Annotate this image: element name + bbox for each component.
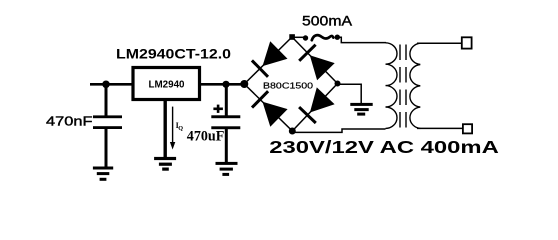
diode D3 top-right (292, 37, 338, 84)
diode D4 bottom-right (292, 84, 337, 132)
wire bridge right corner to ground (338, 84, 362, 103)
node bridge bottom corner (289, 128, 296, 135)
node input junction (102, 81, 110, 89)
wire junction to C1 (105, 84, 108, 116)
wire regulator ground pin (163, 100, 166, 157)
arrow IQ current (172, 107, 174, 144)
ground under C1 (93, 167, 113, 181)
svg-text:Q: Q (178, 125, 183, 132)
wire junction to C2 (225, 84, 228, 116)
wire regulator output (199, 83, 244, 86)
wire C2 to ground (225, 129, 228, 163)
capacitor C2 470uF (211, 115, 240, 118)
node bridge top corner (289, 34, 295, 40)
wire C1 to ground (105, 129, 108, 167)
node output junction (222, 81, 229, 88)
wire fuse to transformer primary top (337, 37, 386, 42)
ground under C2 (216, 162, 238, 176)
connector top terminal (462, 37, 472, 48)
fuse F1 squiggle (312, 35, 334, 40)
node fuse right (335, 35, 340, 40)
wire input to regulator (90, 83, 133, 86)
wire bridge bottom to transformer primary bottom (292, 129, 385, 132)
svg-text:470uF: 470uF (187, 129, 225, 145)
wire bridge top to fuse (292, 36, 306, 38)
capacitor C2 470uF polarity + (213, 108, 223, 111)
ground under regulator (154, 157, 176, 171)
connector bottom terminal (463, 124, 472, 133)
transformer core (399, 45, 401, 128)
transformer T1 secondary winding (410, 43, 420, 128)
node bridge left corner (240, 80, 248, 88)
node fuse left (303, 35, 308, 40)
svg-text:LM2940: LM2940 (149, 79, 186, 90)
diode D1 top-left (244, 37, 292, 84)
diode D2 bottom-left (244, 84, 292, 131)
wire secondary top to connector (417, 42, 462, 44)
svg-text:LM2940CT-12.0: LM2940CT-12.0 (116, 47, 231, 63)
node bridge right corner (335, 81, 341, 87)
svg-text:B80C1500: B80C1500 (263, 81, 313, 91)
wire secondary bottom to connector (417, 127, 462, 129)
capacitor C1 470nF (93, 115, 122, 118)
svg-text:230V/12V AC 400mA: 230V/12V AC 400mA (269, 137, 499, 157)
regulator U1 LM2940 box (133, 68, 200, 100)
transformer T1 primary winding (386, 43, 398, 129)
svg-text:500mA: 500mA (302, 14, 353, 29)
ground at bridge right (350, 103, 372, 116)
svg-text:470nF: 470nF (46, 113, 93, 128)
